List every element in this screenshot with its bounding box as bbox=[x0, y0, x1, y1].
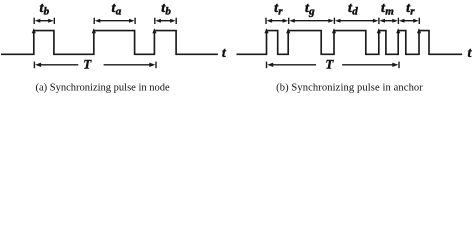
svg-text:T: T bbox=[83, 57, 92, 72]
svg-text:a: a bbox=[116, 5, 122, 17]
svg-text:b: b bbox=[165, 5, 171, 17]
svg-text:r: r bbox=[410, 5, 415, 17]
svg-text:d: d bbox=[352, 5, 358, 17]
svg-text:(b) Synchronizing pulse in anc: (b) Synchronizing pulse in anchor bbox=[276, 83, 423, 94]
svg-text:T: T bbox=[325, 57, 334, 72]
svg-text:(a) Synchronizing pulse in nod: (a) Synchronizing pulse in node bbox=[36, 83, 170, 94]
svg-text:r: r bbox=[278, 5, 283, 17]
svg-text:g: g bbox=[308, 5, 315, 17]
svg-text:m: m bbox=[385, 5, 394, 17]
svg-text:b: b bbox=[44, 5, 50, 17]
